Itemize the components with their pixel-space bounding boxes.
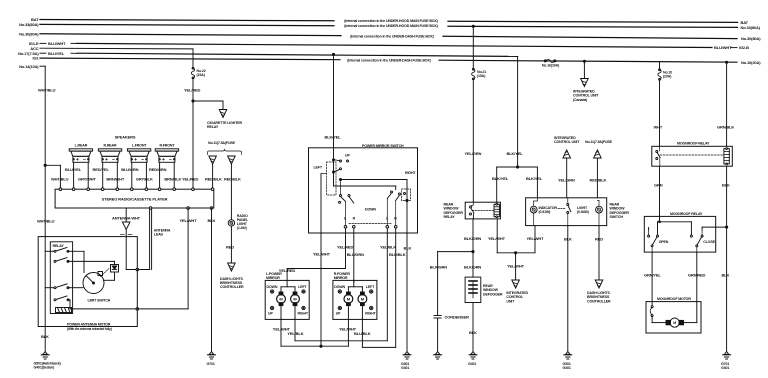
box power mirror switch — [309, 148, 418, 233]
svg-text:LEAD: LEAD — [154, 233, 164, 237]
wire RED down — [598, 226, 600, 280]
wire YEL/RED down — [192, 79, 194, 190]
speaker L.FRONT — [127, 144, 150, 163]
label YEL/WHT merge — [507, 264, 525, 269]
text internal connection under-hood 2 — [344, 24, 438, 28]
svg-text:(Canada): (Canada) — [573, 98, 588, 102]
box moonroof relay coil — [652, 146, 733, 166]
svg-text:BLU/YEL: BLU/YEL — [65, 167, 82, 172]
label ICU canada — [573, 90, 599, 102]
svg-text:BLK/GRN: BLK/GRN — [430, 265, 447, 270]
node junction cigarette branch — [192, 100, 194, 102]
relay defogger coil — [494, 203, 499, 217]
svg-text:No.16(20A): No.16(20A) — [741, 60, 761, 65]
label YEL/BLK under L mirror — [287, 331, 303, 336]
svg-text:RELAY: RELAY — [53, 244, 65, 248]
arrow RED/BLK feed 2 — [228, 156, 236, 164]
antenna symbol — [121, 222, 132, 270]
speaker R.REAR — [98, 144, 121, 163]
wire BLK stereo — [211, 208, 213, 352]
label YEL/RED — [184, 88, 201, 93]
lamp light — [596, 206, 603, 213]
svg-text:(Internal connection in the UN: (Internal connection in the UNDER-DASH F… — [350, 34, 434, 38]
label ACC left — [30, 46, 38, 51]
bus No.30 — [40, 34, 737, 39]
label YEL/RED mirror — [279, 268, 296, 273]
label fuse No.22 — [197, 69, 206, 77]
label L power mirror — [266, 272, 282, 280]
svg-text:(With the antenna retracted fu: (With the antenna retracted fully) — [67, 327, 112, 331]
switch contacts lower right — [387, 191, 405, 226]
dashed link bottom — [349, 223, 391, 225]
label GRN/BLK — [717, 125, 734, 130]
relay contact 2 — [54, 258, 69, 263]
svg-text:POWER MIRROR SWITCH: POWER MIRROR SWITCH — [362, 144, 404, 148]
svg-text:DOWN: DOWN — [267, 285, 278, 289]
label BLK moonroof upper — [722, 183, 730, 188]
svg-text:GRN/RED: GRN/RED — [688, 273, 706, 278]
label ICU above switch — [554, 136, 580, 144]
svg-text:MIRROR: MIRROR — [334, 276, 348, 280]
wire YEL/BLK switch — [386, 228, 388, 341]
svg-text:CLOSE: CLOSE — [703, 240, 715, 244]
svg-text:M: M — [673, 321, 676, 325]
ground G701 moonroof — [723, 352, 731, 359]
box power antenna motor — [38, 237, 137, 327]
svg-text:(15A): (15A) — [197, 73, 206, 77]
labels L R — [344, 216, 397, 220]
bus No.33 — [40, 24, 738, 27]
node junction GRN/BLK tap — [726, 61, 728, 63]
R mirror motor labels — [347, 296, 365, 301]
svg-text:BRN/WHT: BRN/WHT — [106, 177, 125, 182]
label RED down — [595, 237, 603, 242]
label RED/BLK 2 — [224, 177, 241, 182]
label No.33 left — [19, 22, 39, 27]
wire yel/wht bus — [281, 319, 348, 347]
wire YEL/WHT common — [320, 233, 322, 346]
node junction YEL/WHT merge — [515, 252, 517, 254]
L mirror internals — [277, 280, 300, 319]
label fuse No.10 — [663, 71, 672, 79]
label radio panel light — [237, 214, 249, 230]
label WHT — [654, 125, 663, 130]
label G701 G401 moonroof — [721, 362, 729, 370]
wire crossover 1 — [340, 179, 409, 234]
svg-text:G401: G401 — [401, 366, 409, 370]
wire RED/BLK to stereo — [212, 164, 214, 189]
R mirror terminals — [338, 290, 373, 310]
label No.11 fuse right — [585, 140, 613, 144]
node junction ICU canada — [583, 60, 585, 62]
svg-text:MIRROR: MIRROR — [266, 276, 280, 280]
label No.11 fuse — [208, 141, 236, 145]
svg-text:(Internal connection in the UN: (Internal connection in the UNDER-DASH F… — [347, 58, 431, 62]
node junction No.21 tap — [472, 25, 474, 27]
label RIGHT — [405, 171, 416, 175]
svg-text:R.REAR: R.REAR — [104, 144, 117, 148]
wire WHT/BLU branch to stereo — [44, 164, 60, 189]
label DOWN — [365, 208, 376, 212]
speaker wire labels row1 — [65, 167, 167, 172]
label BLK/YEL defogger — [507, 151, 524, 156]
label moonroof relay switches — [670, 212, 703, 216]
dashed knob right — [402, 189, 411, 201]
svg-text:RIGHT: RIGHT — [405, 171, 416, 175]
svg-text:BLK/GRN: BLK/GRN — [464, 265, 481, 270]
svg-text:BLK/YEL: BLK/YEL — [507, 151, 524, 156]
svg-text:LEFT: LEFT — [314, 166, 323, 170]
wire YEL/GRN — [472, 80, 474, 203]
svg-text:BLU/BLK: BLU/BLK — [389, 252, 406, 257]
svg-text:(0.91W): (0.91W) — [539, 210, 552, 214]
label UP — [345, 153, 350, 157]
label BLK stereo — [208, 218, 216, 223]
label ANTENNA WHT — [112, 216, 141, 221]
fuse No.16 inline — [544, 59, 556, 62]
wire GRN/RED — [696, 252, 698, 302]
condenser — [434, 316, 441, 352]
label moonroof relay coil — [677, 142, 710, 146]
svg-text:YEL/GRN: YEL/GRN — [558, 178, 575, 183]
svg-text:UP: UP — [336, 311, 341, 315]
label BLK antenna — [41, 334, 49, 339]
wire BLK defogger — [472, 303, 474, 352]
label G301 G401 defogger switch — [563, 362, 571, 370]
svg-text:LIMIT SWITCH: LIMIT SWITCH — [88, 299, 111, 303]
label BLU/BLK switch — [389, 252, 406, 257]
switch contact defogger — [558, 198, 571, 226]
svg-text:WHT/BLU: WHT/BLU — [51, 177, 69, 182]
svg-text:YEL/RED: YEL/RED — [182, 177, 199, 182]
label BLK/YEL left branch — [492, 176, 509, 181]
svg-text:ANTENNA WHT: ANTENNA WHT — [112, 216, 141, 221]
label G701 — [207, 362, 215, 366]
svg-text:RED: RED — [595, 237, 603, 242]
svg-text:RED: RED — [226, 245, 234, 250]
svg-text:RIGHT: RIGHT — [365, 311, 376, 315]
svg-text:RED/BLK: RED/BLK — [224, 177, 241, 182]
svg-text:No.33(80A): No.33(80A) — [741, 25, 761, 30]
arrow ICU canada — [581, 79, 589, 87]
svg-text:GRN/BLK: GRN/BLK — [717, 125, 734, 130]
svg-text:LEFT: LEFT — [298, 285, 307, 289]
svg-text:(Internal connection in the UN: (Internal connection in the UNDER-HOOD M… — [344, 24, 438, 28]
svg-text:CONDENSER: CONDENSER — [445, 315, 469, 320]
svg-text:BLU/GRN: BLU/GRN — [121, 167, 138, 172]
svg-text:RED/YEL: RED/YEL — [93, 167, 110, 172]
svg-text:IG1: IG1 — [33, 56, 40, 61]
fuse No.10 — [658, 69, 661, 80]
svg-text:No.11(7.5A)FUSE: No.11(7.5A)FUSE — [208, 141, 236, 145]
label ANTENNA LEAD — [154, 229, 171, 237]
label dash lights brightness controller — [220, 277, 244, 289]
svg-text:BLK: BLK — [208, 218, 216, 223]
label R power mirror — [334, 272, 351, 280]
svg-text:WHT: WHT — [654, 125, 663, 130]
diode — [111, 265, 119, 273]
label rear window defogger relay — [444, 203, 464, 220]
defogger element — [465, 277, 481, 302]
svg-text:No.33(80A): No.33(80A) — [19, 22, 39, 27]
box L power mirror — [265, 280, 309, 319]
arrow dash lights brightness controller — [228, 263, 236, 271]
label IG1-E left — [29, 41, 66, 46]
switch bottom terminals — [344, 226, 397, 229]
svg-text:CONTROL UNIT: CONTROL UNIT — [554, 140, 580, 144]
svg-text:RED/BLK: RED/BLK — [590, 178, 607, 183]
label No.33 right — [741, 25, 761, 30]
svg-text:(15A): (15A) — [477, 74, 486, 78]
svg-text:G401: G401 — [468, 362, 476, 366]
moonroof relay dash link — [660, 154, 723, 156]
moonroof relay contact close — [690, 230, 703, 252]
svg-text:RELAY: RELAY — [444, 215, 456, 219]
arrow cigarette lighter relay — [219, 110, 227, 118]
label WHT/BLU lower — [37, 219, 55, 224]
label light — [577, 206, 590, 214]
label BLK moonroof lower — [722, 273, 730, 278]
wire BLK moonroof — [726, 166, 728, 351]
svg-text:DOWN: DOWN — [365, 208, 376, 212]
svg-text:DEFOGGER: DEFOGGER — [483, 292, 503, 296]
wire BLK/YEL defogger drop — [517, 56, 519, 167]
svg-text:GRN/YEL: GRN/YEL — [644, 273, 661, 278]
svg-text:SWITCH: SWITCH — [610, 215, 624, 219]
label No.17 left — [18, 51, 65, 56]
wire BLU/BLK switch — [395, 228, 397, 347]
lamp radio panel light — [228, 220, 234, 226]
label RED/BLK switch — [590, 178, 607, 183]
label YEL/BLK switch — [380, 245, 396, 250]
label moonroof motor — [657, 297, 691, 301]
label IG2-B right — [714, 45, 749, 50]
svg-text:DOWN: DOWN — [334, 285, 345, 289]
moonroof relay coil symbol — [724, 148, 729, 165]
speaker wire labels row2 — [51, 177, 222, 182]
label fuse No.16 — [542, 64, 560, 68]
label No.30 left — [19, 31, 39, 36]
label YEL/WHT under R mirror — [339, 326, 357, 331]
box stereo radio/cassette player — [55, 189, 214, 208]
svg-text:No.30(80A): No.30(80A) — [19, 31, 39, 36]
label No.16 right — [741, 60, 761, 65]
svg-text:No.14(10A): No.14(10A) — [19, 64, 39, 69]
svg-text:(20A): (20A) — [663, 75, 672, 79]
switch contacts lower left — [339, 181, 354, 226]
svg-text:No.16(20A): No.16(20A) — [542, 64, 560, 68]
wire blu/blk return — [362, 319, 395, 347]
svg-text:YEL/WHT: YEL/WHT — [313, 251, 331, 256]
speaker R.FRONT — [155, 144, 178, 163]
svg-text:STEREO RADIO/CASSETTE PLAYER: STEREO RADIO/CASSETTE PLAYER — [102, 197, 168, 202]
label YEL/WHT common — [313, 251, 331, 256]
svg-text:GRN: GRN — [654, 183, 663, 188]
wire YEL/GRN switch — [566, 158, 568, 198]
label BLK defogger — [469, 330, 477, 335]
svg-text:BLK: BLK — [41, 334, 49, 339]
wire BLK/YEL splitter — [497, 166, 538, 202]
svg-text:YEL/BLK: YEL/BLK — [380, 245, 396, 250]
svg-text:YEL/BLK: YEL/BLK — [287, 331, 303, 336]
arrow ICU up — [563, 150, 571, 158]
node junction condenser — [472, 251, 474, 253]
wire YEL/WHT below switch label — [0, 0, 1, 1]
switch contact mid — [335, 168, 342, 172]
label SPEAKERS — [115, 135, 136, 140]
label YEL/RED switch — [337, 245, 354, 250]
wire YEL/WHT stereo — [70, 208, 188, 310]
svg-text:R.FRONT: R.FRONT — [159, 144, 175, 148]
svg-text:G401: G401 — [563, 366, 571, 370]
label BLU/GRN switch — [347, 252, 364, 257]
svg-text:WHT/BLU: WHT/BLU — [38, 88, 56, 93]
relay defogger contacts — [470, 202, 475, 219]
svg-text:SPEAKERS: SPEAKERS — [115, 135, 136, 140]
ground G401 hatchback — [41, 352, 49, 359]
label BLU/BLK under R mirror — [354, 331, 371, 336]
svg-text:BLK: BLK — [469, 330, 477, 335]
svg-text:G701: G701 — [207, 362, 215, 366]
svg-text:YEL/WHT: YEL/WHT — [507, 264, 525, 269]
svg-text:MOONROOF RELAY: MOONROOF RELAY — [677, 142, 710, 146]
wire BLU/GRN switch — [353, 228, 355, 282]
R mirror internals — [344, 280, 367, 319]
label power mirror switch — [362, 144, 404, 148]
svg-text:BLU/WHT: BLU/WHT — [48, 41, 66, 46]
svg-text:BLK/YEL: BLK/YEL — [325, 135, 342, 140]
L mirror terminals — [270, 290, 305, 310]
wire No.33 to fuse No.21 — [472, 26, 474, 69]
switch feed wire — [333, 148, 335, 186]
svg-text:POWER ANTENNA MOTOR: POWER ANTENNA MOTOR — [67, 322, 111, 326]
label relay — [53, 244, 65, 248]
wire antenna — [125, 208, 127, 222]
label G301 G401 mirror — [401, 362, 409, 370]
wire GRN — [659, 166, 661, 216]
svg-text:RELAY: RELAY — [207, 125, 219, 129]
label rear window defogger element — [483, 284, 503, 296]
wire YEL/RED switch — [287, 228, 345, 280]
wire YEL/WHT from relay — [497, 219, 515, 253]
wire to cigarette lighter relay — [193, 101, 223, 110]
svg-text:IG2-B: IG2-B — [739, 45, 749, 50]
ground G301 mirror — [403, 352, 411, 359]
arrow RED/BLK feed 1 — [209, 156, 217, 164]
svg-text:BRN/BLK: BRN/BLK — [164, 177, 181, 182]
relay contact 1 — [54, 248, 69, 253]
arrow fuse up — [594, 150, 602, 158]
svg-text:UP: UP — [345, 153, 350, 157]
label fuse No.21 — [477, 70, 486, 78]
label YEL/WHT under L mirror — [273, 326, 291, 331]
wire WHT — [659, 80, 661, 146]
L mirror direction labels — [267, 285, 309, 315]
svg-text:RED/GRN: RED/GRN — [149, 167, 167, 172]
relay stubs — [45, 251, 54, 287]
label G401 defogger — [468, 362, 476, 366]
fuse No.21 — [472, 68, 475, 79]
svg-text:BLK/GRN: BLK/GRN — [464, 236, 481, 241]
label rear window defogger switch — [610, 203, 630, 220]
label LEFT — [314, 166, 323, 170]
svg-text:MOONROOF RELAY: MOONROOF RELAY — [670, 212, 703, 216]
moonroof relay contacts — [656, 146, 660, 166]
label indicator — [539, 206, 558, 214]
svg-text:BLK/YEL: BLK/YEL — [526, 176, 543, 181]
wire No.16 line to fuse No.10 — [659, 62, 661, 70]
arrow ICU defogger — [512, 280, 520, 288]
svg-text:L.FRONT: L.FRONT — [132, 144, 147, 148]
label CLOSE — [703, 240, 715, 244]
lamp indicator — [530, 206, 537, 213]
arrow dash lights brightness controller right — [595, 280, 603, 288]
svg-text:No.11(7.5A)FUSE: No.11(7.5A)FUSE — [585, 140, 613, 144]
svg-text:MOONROOF MOTOR: MOONROOF MOTOR — [657, 297, 691, 301]
antenna lead double line — [126, 208, 151, 271]
wire No.14 to WHT/BLU vertical — [40, 66, 45, 352]
text internal connection under-hood 1 — [344, 19, 438, 23]
svg-text:BLK/YEL: BLK/YEL — [492, 176, 509, 181]
fuse No.22 — [191, 67, 194, 78]
switch contact up — [335, 160, 349, 162]
label condenser — [445, 315, 469, 320]
box moonroof motor — [646, 302, 701, 333]
label ground G401 — [34, 361, 62, 369]
label limit switch — [88, 299, 111, 303]
box R power mirror — [333, 280, 377, 319]
box relay — [50, 242, 72, 314]
svg-text:UP: UP — [268, 311, 273, 315]
svg-text:(Internal connection in the UN: (Internal connection in the UNDER-HOOD M… — [344, 19, 438, 23]
svg-text:OPEN: OPEN — [659, 240, 669, 244]
label stereo — [102, 197, 168, 202]
svg-text:CONTROLLER: CONTROLLER — [587, 299, 611, 303]
label IG1 left — [33, 56, 40, 61]
ground G301 defogger switch — [564, 352, 572, 359]
ground G701 — [208, 352, 216, 359]
label BLK switch — [404, 245, 412, 250]
svg-text:BLU/YEL: BLU/YEL — [48, 51, 65, 56]
label BLK/YEL right branch — [526, 176, 543, 181]
svg-text:UNIT: UNIT — [506, 299, 515, 303]
R mirror direction labels — [334, 285, 376, 315]
label BLK switch down — [564, 237, 572, 242]
svg-text:BLK: BLK — [404, 245, 412, 250]
wire to ICU canada — [583, 61, 585, 78]
wire BLK switch down — [567, 226, 569, 352]
node junction BLK/YEL tap — [332, 53, 334, 55]
relay coil box — [56, 308, 72, 313]
svg-text:L.REAR: L.REAR — [75, 144, 88, 148]
wire YEL/WHT to ICU — [515, 253, 517, 280]
label BAT right — [741, 20, 749, 25]
bus ACC — [40, 47, 193, 50]
box moonroof relay switches — [644, 216, 715, 252]
svg-text:CONTROLLER: CONTROLLER — [220, 285, 244, 289]
label BLK/GRN 3 — [464, 265, 481, 270]
box rear window defogger switch — [526, 198, 607, 226]
bus IG1-E / IG2-B — [77, 43, 712, 47]
wire BLK/YEL drop — [333, 55, 335, 148]
wires inside antenna box — [68, 251, 115, 302]
switch internal left common — [321, 174, 327, 233]
label YEL/WHT switch out — [527, 236, 545, 241]
relay left feed stub — [472, 214, 474, 219]
wire RED/BLK switch — [596, 158, 598, 198]
svg-text:GRY/WHT: GRY/WHT — [78, 177, 96, 182]
wire yel/blk return — [295, 319, 387, 340]
